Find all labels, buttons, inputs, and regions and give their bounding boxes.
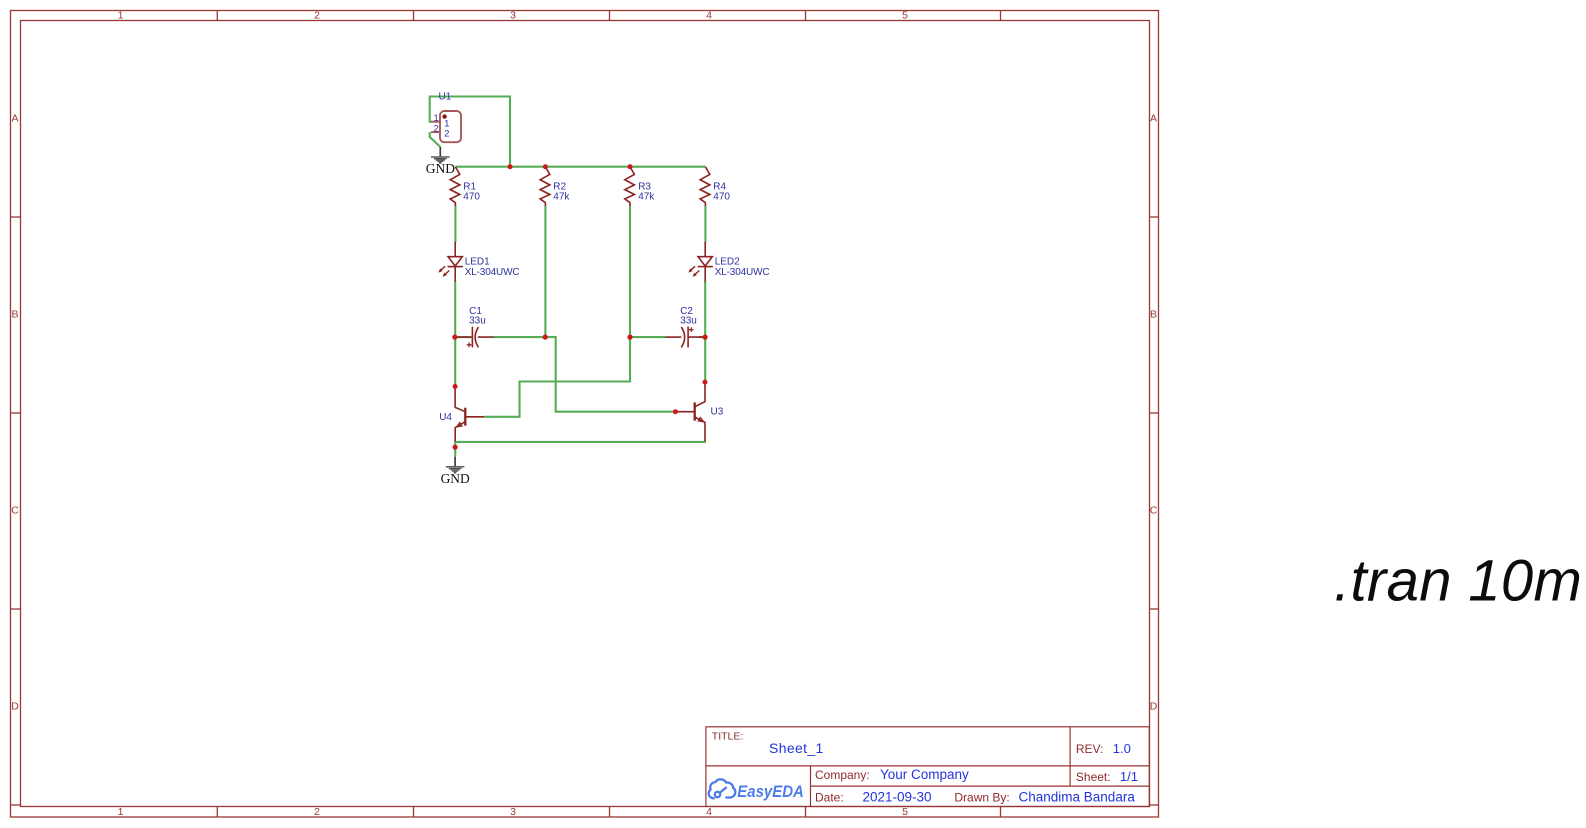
svg-text:B: B [11, 308, 18, 320]
svg-text:B: B [1150, 308, 1157, 320]
svg-text:.tran 10m: .tran 10m [1334, 549, 1582, 614]
svg-text:1.0: 1.0 [1113, 741, 1131, 756]
svg-text:GND: GND [441, 471, 470, 486]
svg-text:C: C [11, 504, 19, 516]
svg-text:D: D [11, 700, 19, 712]
svg-text:A: A [1150, 112, 1157, 124]
svg-text:3: 3 [510, 10, 516, 22]
svg-text:5: 5 [902, 806, 908, 818]
svg-text:4: 4 [706, 10, 712, 22]
svg-text:Chandima Bandara: Chandima Bandara [1019, 790, 1136, 805]
svg-text:5: 5 [902, 10, 908, 22]
svg-text:REV:: REV: [1076, 742, 1104, 756]
svg-text:1/1: 1/1 [1120, 769, 1138, 784]
svg-text:D: D [1150, 700, 1158, 712]
svg-text:Sheet:: Sheet: [1076, 770, 1111, 784]
svg-text:C: C [1150, 504, 1158, 516]
svg-text:A: A [11, 112, 18, 124]
svg-text:1: 1 [434, 113, 439, 124]
svg-text:XL-304UWC: XL-304UWC [465, 267, 520, 278]
svg-text:1: 1 [118, 806, 124, 818]
svg-text:EasyEDA: EasyEDA [737, 782, 804, 801]
svg-text:3: 3 [510, 806, 516, 818]
svg-text:Sheet_1: Sheet_1 [769, 740, 824, 756]
svg-text:2: 2 [434, 123, 439, 134]
svg-text:33u: 33u [469, 316, 486, 327]
svg-text:470: 470 [713, 191, 730, 202]
svg-text:470: 470 [463, 191, 480, 202]
svg-text:Company:: Company: [815, 768, 870, 782]
svg-text:2: 2 [444, 129, 449, 140]
svg-text:2021-09-30: 2021-09-30 [863, 790, 932, 805]
svg-text:47k: 47k [553, 191, 570, 202]
svg-text:GND: GND [426, 161, 455, 176]
svg-text:Your Company: Your Company [880, 767, 969, 782]
svg-text:33u: 33u [680, 316, 697, 327]
svg-text:2: 2 [314, 10, 320, 22]
svg-text:U4: U4 [439, 412, 452, 423]
svg-text:U1: U1 [439, 92, 452, 103]
svg-text:4: 4 [706, 806, 712, 818]
svg-text:U3: U3 [711, 407, 724, 418]
svg-text:47k: 47k [638, 191, 655, 202]
svg-text:Date:: Date: [815, 791, 844, 805]
svg-text:2: 2 [314, 806, 320, 818]
svg-text:Drawn By:: Drawn By: [954, 791, 1009, 805]
svg-text:TITLE:: TITLE: [712, 731, 744, 743]
svg-text:XL-304UWC: XL-304UWC [715, 267, 770, 278]
svg-text:1: 1 [118, 10, 124, 22]
